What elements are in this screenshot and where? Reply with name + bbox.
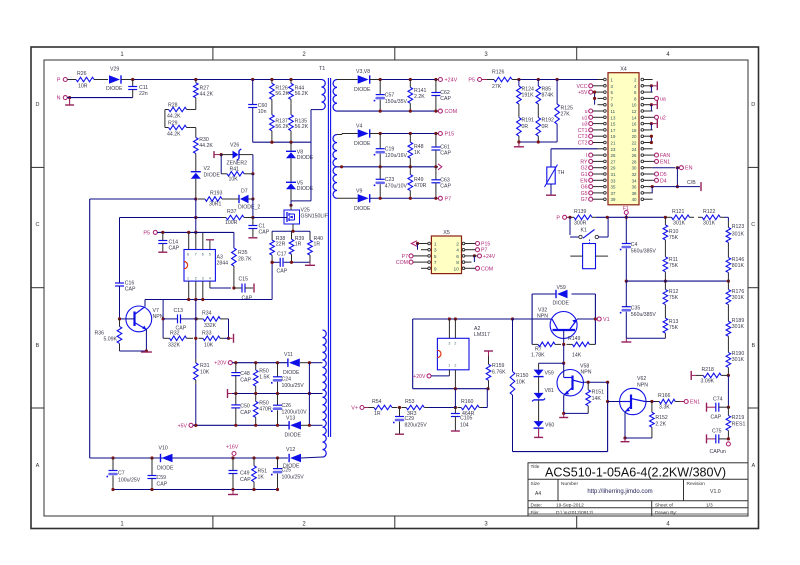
relay K1 coil [570,244,608,269]
svg-text:100u/25V: 100u/25V [118,478,141,484]
capacitor C23 [374,167,408,199]
diode V3 V8 [345,69,380,93]
wire C13 branch [162,300,178,339]
svg-text:R191: R191 [522,118,535,124]
svg-text:CAP: CAP [240,477,251,483]
T1 aux winding [323,330,327,457]
resistor R38 [270,231,286,262]
svg-text:191K: 191K [522,93,535,99]
capacitor C4 [620,217,657,281]
wire mid rail [626,280,730,283]
resistor R51 [252,458,267,490]
port P [57,78,75,84]
ground bar V7 [141,351,152,353]
svg-text:CAP: CAP [440,96,451,102]
svg-text:10n: 10n [258,109,267,115]
resistor R85 [536,80,554,105]
wire top rail primary [131,78,321,81]
wire R150 lower [512,395,514,452]
wire aux v-link [308,363,310,426]
capacitor C24 [271,363,304,394]
capacitor C57 [374,80,408,112]
resistor R190 [726,345,744,376]
wire divider bottom [626,337,665,339]
svg-text:R121: R121 [672,209,685,215]
capacitor C62 [431,80,451,112]
svg-text:CAP: CAP [259,230,270,236]
A3 top pins [189,232,210,249]
svg-text:X5: X5 [443,230,450,236]
resistor R176 [726,281,744,313]
X5 port P7 [402,254,421,260]
svg-text:14: 14 [632,115,637,120]
wire V58 emitter [562,395,588,416]
svg-text:A: A [36,463,40,469]
power bar R159 [484,351,493,356]
ground bar C1 [248,237,257,239]
svg-text:V13: V13 [286,416,295,422]
svg-text:P: P [57,78,61,84]
svg-text:u3: u3 [582,122,588,128]
svg-text:C7: C7 [118,471,125,477]
port +24V [438,78,457,84]
wire V62 base [606,382,622,403]
svg-text:D:\ \ru2012\0912\: D:\ \ru2012\0912\ [556,510,594,516]
T1 secondary winding top [333,80,337,112]
wire R125 bottom [556,124,558,142]
svg-text:0R: 0R [542,124,549,130]
wire vreg mid [454,389,456,408]
T1 secondary winding mid [333,135,337,167]
svg-text:V9: V9 [356,189,362,195]
svg-text:P: P [556,215,560,221]
wire snubber top rail [272,230,310,233]
svg-text:B: B [751,343,755,349]
svg-text:100R: 100R [225,220,238,226]
svg-text:+20V: +20V [413,374,426,380]
svg-text:10K: 10K [229,177,239,183]
svg-text:CT1: CT1 [578,128,588,134]
capacitor C7 [107,458,141,490]
X4 tie pins 20 22 [650,135,653,145]
ground bar C14 [158,251,167,253]
svg-text:NPN: NPN [537,314,548,320]
resistor R35 [232,232,252,289]
svg-text:C57: C57 [385,93,395,99]
svg-text:3: 3 [434,248,437,254]
svg-text:COM: COM [396,260,408,266]
svg-text:R219: R219 [732,415,745,421]
ic A3 box [184,250,228,282]
svg-text:CAP: CAP [242,296,253,302]
svg-text:C59: C59 [157,475,167,481]
wire V58 collector [583,381,610,384]
capacitor C25 [271,458,304,490]
svg-text:4: 4 [456,248,459,254]
resistor R41 [221,167,250,183]
resistor R192 [536,104,554,136]
svg-text:2.2K: 2.2K [655,422,666,428]
svg-text:8: 8 [187,253,189,257]
svg-text:ACS510-1-05A6-4(2.2KW/380V): ACS510-1-05A6-4(2.2KW/380V) [545,466,726,480]
wire V7 emitter down [120,329,148,353]
resistor R53 [402,399,430,417]
svg-text:40: 40 [632,197,637,202]
svg-text:V3,V8: V3,V8 [356,69,370,75]
resistor R28 [165,103,190,120]
wire R29-R30 [190,128,196,135]
svg-text:301K: 301K [732,295,745,301]
wire mid aux rail [232,392,323,395]
X4 pins [598,78,653,203]
wire drain jog [291,110,322,206]
diode V59 loop [553,285,570,307]
wire A2 adj node [449,387,490,390]
resistor R36 [94,319,121,351]
svg-text:C25: C25 [282,468,292,474]
svg-text:V10: V10 [159,446,168,452]
wire R28-R29 [164,110,166,128]
port EN1 [680,400,701,406]
X4 right ports [653,96,671,184]
X5 port P15 [472,242,491,248]
wire V62 collector [645,400,655,403]
diode V60 [534,400,555,429]
zone divider ticks [31,47,759,529]
svg-text:DIODE: DIODE [106,86,123,92]
capacitor C75 [707,429,729,456]
svg-text:56.2K: 56.2K [295,124,309,130]
capacitor C60 [248,80,267,143]
diode V5 [286,158,314,192]
resistor R7 [531,342,561,358]
capacitor C105 [451,408,473,431]
wire V5-drain [289,189,292,207]
resistor R34 [196,311,227,330]
diode V13 [285,416,323,439]
wire R122-R123 [725,217,729,221]
svg-text:CAP: CAP [277,269,288,275]
svg-text:301K: 301K [732,232,745,238]
svg-text:G7: G7 [581,197,588,203]
svg-text:R166: R166 [658,393,671,399]
relay K1 contact [568,216,608,244]
capacitor C14 [158,232,179,251]
svg-text:V26: V26 [230,143,239,149]
ic A2 box [437,326,490,370]
resistor R11 [663,248,679,282]
svg-text:39: 39 [611,197,616,202]
svg-text:ua: ua [660,96,666,102]
wire centre tap rail [337,165,438,168]
svg-text:22n: 22n [139,91,148,97]
resistor R13 [663,313,679,338]
svg-text:EN: EN [580,178,587,184]
svg-text:3: 3 [448,341,450,345]
wire P15 rail [379,132,439,135]
svg-text:560u/385V: 560u/385V [631,249,657,255]
svg-text:D4: D4 [660,178,667,184]
svg-text:D: D [36,102,40,108]
svg-text:CAP: CAP [240,378,251,384]
svg-text:R151: R151 [592,390,605,396]
svg-text:Date:: Date: [531,502,542,508]
resistor R150 [510,319,528,395]
diode V2 [191,166,221,179]
svg-text:R126: R126 [492,70,505,76]
svg-text:75K: 75K [669,235,679,241]
resistor R166 [655,393,680,411]
capacitor C74 [707,397,729,421]
svg-text:D5: D5 [660,172,667,178]
svg-text:4: 4 [209,277,211,281]
svg-text:DIODE: DIODE [553,301,570,307]
svg-text:22: 22 [632,141,637,146]
svg-text:1K: 1K [258,475,265,481]
zone labels [36,52,756,528]
svg-text:6: 6 [456,254,459,260]
wire mains rail [596,216,667,219]
A2 top pins [449,319,455,338]
wire R150 bottom run [513,382,608,451]
wire V26 loop right [250,155,254,176]
transistor V32 [537,308,577,345]
port P mains [556,215,566,221]
port below C75 [726,437,730,446]
svg-text:470u/10V: 470u/10V [385,184,408,190]
svg-text:R192: R192 [542,118,555,124]
svg-text:C49: C49 [240,471,250,477]
svg-text:470R: 470R [259,407,272,413]
wire feedback bus [145,298,272,301]
X5 port +24V [472,254,496,262]
wire N line [67,97,132,99]
ground bar at N [65,98,74,105]
node R218 [727,374,730,377]
resistor R189 [726,313,744,345]
svg-text:DIODE: DIODE [157,466,174,472]
X5 port COMr [472,266,494,272]
svg-text:2.2K: 2.2K [414,94,425,100]
svg-text:G1: G1 [581,172,588,178]
svg-text:V1.0: V1.0 [710,489,721,495]
svg-text:R122: R122 [703,209,716,215]
svg-text:B: B [36,343,40,349]
diode D7 [229,189,260,211]
svg-text:120u/16V: 120u/16V [385,153,408,159]
svg-text:27K: 27K [561,111,571,117]
svg-text:1.5K: 1.5K [259,375,270,381]
svg-text:DIODE: DIODE [354,141,371,147]
diode V11 [283,352,323,376]
resistor R124 [517,80,535,105]
svg-text:470R: 470R [414,183,427,189]
T1 primary winding [322,80,326,110]
svg-text:C74: C74 [713,397,723,403]
svg-text:10R: 10R [78,84,88,90]
svg-text:R34: R34 [202,311,212,317]
svg-text:u: u [585,109,588,115]
capacitor C50 [231,394,251,426]
resistor R54 [364,399,398,417]
svg-text:CAP: CAP [440,151,451,157]
capacitor C17 [277,252,288,275]
svg-text:6: 6 [202,253,204,257]
svg-text:P5: P5 [468,78,475,84]
wire P5 line [157,231,234,234]
svg-text:874K: 874K [542,93,555,99]
diode V29 [106,67,133,93]
resistor R218 [691,367,728,385]
svg-text:R41: R41 [230,167,240,173]
svg-text:1: 1 [448,363,450,367]
transistor V58 [557,363,592,396]
svg-text:22R: 22R [276,242,286,248]
svg-text:V62: V62 [637,376,646,382]
X5 port P7r [472,248,488,254]
X5 pins [421,242,472,273]
svg-text:27: 27 [611,159,616,164]
capacitor C48 [231,363,251,394]
svg-text:37: 37 [611,191,616,196]
capacitor C26 [271,394,307,426]
resistor R27 [194,80,214,102]
svg-text:V29: V29 [110,67,119,73]
wire x196 vertical [194,199,197,234]
port V+ [351,406,364,412]
node R7 R149 [562,343,565,346]
svg-text:FAN: FAN [660,153,670,159]
svg-text:CAP: CAP [711,415,722,421]
svg-text:10K: 10K [200,370,210,376]
svg-text:5.09K: 5.09K [103,337,117,343]
power stub below V60 [534,428,543,437]
wire A2 left rail [413,319,449,389]
resistor R139 [567,209,596,227]
svg-text:P15: P15 [481,242,490,248]
wire R27-R28 [190,101,196,110]
svg-text:T1: T1 [319,66,325,72]
svg-text:CAP: CAP [240,410,251,416]
wire R31 column [194,300,197,360]
svg-text:R160: R160 [461,399,474,405]
resistor R126b [482,70,519,91]
port EN net [653,166,693,172]
wire sec1 top stub [337,79,345,81]
wire left long vertical [89,199,91,458]
svg-text:R159: R159 [492,363,505,369]
svg-text:R54: R54 [372,399,382,405]
svg-text:C17: C17 [277,252,287,258]
port +20V rail [214,361,232,367]
ground bar C35 [621,338,631,342]
wire clamp bottom rail [253,141,311,144]
svg-text:RES1: RES1 [732,422,746,428]
svg-text:+24V: +24V [445,78,458,84]
svg-text:C4: C4 [631,242,638,248]
wire emitter to V1 [577,317,597,320]
svg-text:X4: X4 [620,67,627,73]
svg-text:2: 2 [195,277,197,281]
svg-text:V2: V2 [204,166,210,172]
svg-text:G6: G6 [581,185,588,191]
svg-text:G2: G2 [581,166,588,172]
svg-text:1.78K: 1.78K [531,353,545,359]
svg-text:10: 10 [632,103,637,108]
port P15 [438,132,454,138]
svg-text:C: C [36,222,40,228]
svg-text:1K: 1K [414,150,421,156]
svg-text:3.09K: 3.09K [701,379,715,385]
svg-text:V59: V59 [545,371,554,377]
title text [531,464,727,516]
svg-text:P7: P7 [402,254,408,260]
resistor R123 [726,221,744,249]
wire collector line [513,318,553,320]
svg-text:COM: COM [481,266,493,272]
svg-text:NPN: NPN [581,370,592,376]
svg-text:C23: C23 [385,177,395,183]
svg-text:A: A [751,463,755,469]
svg-text:C50: C50 [240,404,250,410]
svg-text:DIODE: DIODE [354,87,371,93]
svg-text:C13: C13 [174,308,184,314]
svg-text:17: 17 [611,128,616,133]
ground bar divider [514,142,524,147]
svg-text:24: 24 [632,147,637,152]
svg-text:12: 12 [632,109,637,114]
svg-text:VCC: VCC [577,84,588,90]
svg-text:1R: 1R [374,411,381,417]
svg-text:301K: 301K [673,220,686,226]
resistor R26 [75,71,95,90]
svg-text:V11: V11 [284,352,293,358]
ground bar snubber [305,262,315,265]
power bar V26 node [214,151,221,158]
svg-text:Revision: Revision [687,481,706,487]
svg-text:1: 1 [187,277,189,281]
svg-text:10K: 10K [204,343,214,349]
resistor R32 [163,331,193,349]
wire +5V rail [193,424,289,427]
V32 loop box [532,294,595,344]
svg-text:10: 10 [454,266,460,272]
resistor R122 [698,209,725,227]
wire COM rail [337,110,438,113]
resistor R40 [308,231,323,262]
port P5 top [468,78,481,84]
wire +20V rail [232,361,288,364]
svg-text:R37: R37 [227,209,237,215]
svg-text:K1: K1 [581,228,587,234]
A2 bottom pins [449,370,455,389]
wire R53-node [429,406,457,409]
svg-text:u1: u1 [582,115,588,121]
ground bar V62 [621,438,630,442]
transistor V62 [620,376,649,415]
resistor R160 [457,399,483,417]
node R32-R33 [194,337,197,340]
zener V26 [221,143,253,167]
wire C/B [651,180,701,193]
svg-text:C19: C19 [385,147,395,153]
svg-text:6.76K: 6.76K [492,370,506,376]
svg-text:CAP: CAP [440,184,451,190]
ground bar C105 [451,430,460,432]
svg-text:0R: 0R [522,124,529,130]
wire bus to V7 collector [144,300,146,307]
svg-text:2: 2 [456,242,459,248]
